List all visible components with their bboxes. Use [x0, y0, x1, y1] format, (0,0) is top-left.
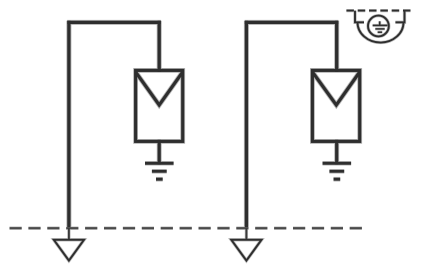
- wire F2 to ground: [335, 140, 338, 165]
- wire L2 left vertical drop to earth bus (circuit 2): [245, 21, 248, 227]
- surge protective device F2 (box): [312, 70, 359, 141]
- ground symbol (circuit 1): [145, 162, 174, 165]
- earth electrode triangle 2: [231, 240, 261, 261]
- grounding icon: surface dashed line: [346, 10, 410, 12]
- varistor chevron inside F1: [136, 72, 183, 105]
- grounding icon: PE bar 3: [378, 31, 383, 33]
- wire stem to earth electrode 1: [68, 228, 70, 239]
- grounding icon: protective earth circle: [368, 16, 389, 37]
- grounding icon: PE bar 1: [373, 24, 388, 26]
- wire L2 top horizontal (circuit 2): [245, 21, 339, 24]
- grounding icon: right flange: [395, 11, 404, 23]
- equipotential bonding bus (dashed line): [10, 227, 363, 229]
- ground symbol (circuit 2): [323, 162, 352, 165]
- varistor chevron inside F2: [313, 72, 360, 105]
- grounding icon: recess bowl arc: [358, 22, 404, 42]
- grounding icon: PE stem: [379, 21, 381, 25]
- wire L2 right vertical into SPD (circuit 2): [335, 21, 338, 72]
- wire F1 to ground: [158, 140, 161, 165]
- wire L1 top horizontal (circuit 1): [67, 21, 161, 24]
- wire L1 left vertical drop to earth bus (circuit 1): [67, 21, 70, 227]
- wire L1 right vertical into SPD (circuit 1): [158, 21, 161, 72]
- wire stem to earth electrode 2: [245, 228, 247, 239]
- grounding icon: PE bar 2: [375, 28, 384, 30]
- earth electrode triangle 1: [54, 240, 84, 261]
- grounding icon: left flange: [355, 11, 364, 23]
- surge protective device F1 (box): [136, 70, 183, 141]
